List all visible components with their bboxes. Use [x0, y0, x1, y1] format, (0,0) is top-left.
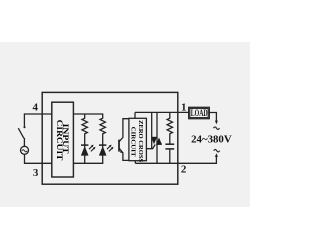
AC line top arrowhead [215, 121, 218, 125]
AC control source G1 [21, 146, 29, 154]
wire: LED D1 to bottom rail [84, 145, 86, 163]
wire: U2 top pin [134, 112, 136, 118]
AC source tilde upper [214, 127, 220, 130]
switch S1 contact dot [23, 126, 25, 128]
svg-text:2: 2 [181, 163, 187, 175]
switch S1 blade [18, 128, 24, 138]
svg-text:24~380V: 24~380V [191, 134, 232, 146]
svg-text:LOAD: LOAD [191, 108, 208, 118]
svg-text:CIRCUIT: CIRCUIT [129, 127, 135, 157]
zero cross circuit block U2 [129, 118, 147, 160]
Q1 emitter lead to U2 [119, 148, 129, 160]
AC line bottom arrowhead [215, 153, 218, 157]
wire: capacitor C1 to bottom rail [169, 149, 171, 163]
SSR module outline box [42, 92, 178, 184]
wire: U2 bottom pin [134, 161, 136, 164]
optocoupler LED D2 [99, 145, 107, 156]
AC source tilde lower [214, 149, 220, 152]
resistor R2 [100, 114, 105, 146]
phototransistor Q1 base bar [118, 140, 120, 152]
svg-text:3: 3 [33, 167, 39, 179]
snubber capacitor C1 [165, 144, 174, 149]
svg-text:ZERO CROSS: ZERO CROSS [137, 120, 143, 163]
wire: terminal 4 to switch [24, 114, 51, 127]
input circuit block U1 [52, 102, 74, 177]
resistor R1 [82, 114, 87, 146]
wire: switch to source [23, 138, 25, 147]
wire: U1 to branches bottom rail [73, 162, 103, 164]
Q1 collector lead to U2 [119, 119, 129, 142]
LOAD box [189, 107, 210, 118]
indicator LED D1 [81, 145, 89, 156]
svg-text:INPUT: INPUT [61, 124, 70, 154]
wire: source to terminal 3 [25, 154, 52, 163]
wire: gate branch from top rail [151, 112, 153, 148]
Q1 emitter arrowhead [120, 151, 123, 154]
LED D1 emission arrows [89, 145, 96, 152]
snubber resistor R3 [167, 112, 172, 144]
optocoupler light arrows [107, 145, 114, 152]
wire: LOAD to AC line corner [209, 113, 216, 121]
triac T1 [151, 138, 162, 145]
wire: LED D2 to bottom rail [102, 145, 104, 163]
wire: U1 to branches top rail [73, 113, 103, 115]
wire: output bottom rail to terminal 2 [135, 157, 216, 164]
wire: output top rail to terminal 1 and LOAD [135, 111, 189, 113]
wire: triac branch [156, 112, 158, 163]
svg-text:4: 4 [32, 102, 38, 114]
wire: triac gate to U2 [146, 145, 155, 149]
